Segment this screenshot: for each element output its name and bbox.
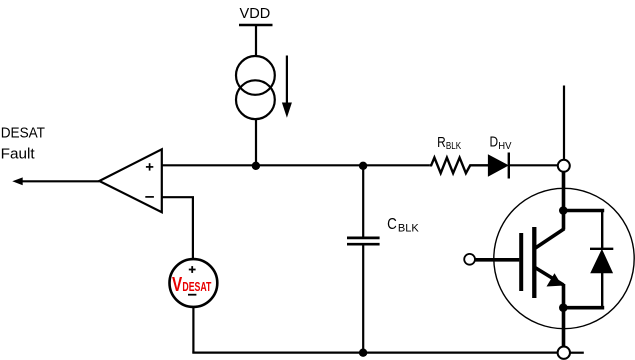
junction C_BLK bottom node [359,349,367,357]
current direction arrow [282,56,292,118]
wire C_BLK bottom lead [362,245,364,352]
diode D_HV label [490,134,512,152]
V_DESAT minus symbol [188,294,196,296]
diode D2 freewheel cathode bar [590,248,613,250]
wire output arrow DESAT Fault [12,177,99,185]
junction collector internal node [559,206,568,215]
IGBT Q1 package circle [494,188,634,328]
diode D_HV triangle [488,155,507,176]
wire freewheel diode top lead [601,211,603,249]
capacitor C_BLK plate bottom [347,243,380,246]
power VDD rail bar [239,24,273,26]
voltage source V_DESAT circle [170,259,218,307]
wire gate lead [475,258,519,262]
op-amp minus input symbol [145,196,154,198]
IGBT emitter diagonal [535,268,564,286]
terminal emitter open node [558,347,570,359]
svg-text:C: C [387,216,397,233]
diode D_HV cathode bar [508,153,510,179]
IGBT body bar [532,227,536,298]
wire minus input to V_DESAT [162,197,193,259]
svg-text:DESAT: DESAT [1,125,45,142]
wire collector to freewheel diode top [563,209,604,213]
op-amp U1 comparator triangle [99,149,162,212]
junction current source node [252,162,260,170]
current source I1 circle bottom [236,80,275,119]
svg-text:V: V [172,273,182,296]
current source I1 circle top [236,56,275,95]
resistor R_BLK zigzag [430,158,489,174]
V_DESAT plus symbol [189,266,196,273]
svg-text:VDD: VDD [240,5,271,22]
diode D2 freewheel triangle [591,250,612,273]
wire emitter rail stub [570,352,584,354]
svg-text:HV: HV [498,141,511,152]
capacitor C_BLK label [387,216,419,235]
svg-text:BLK: BLK [446,141,462,152]
wire VDD to current source [255,25,257,57]
terminal gate open node [464,254,475,265]
terminal collector open node [558,160,570,172]
wire V_DESAT to ground rail [192,307,194,353]
svg-text:D: D [490,134,499,151]
svg-text:Fault: Fault [1,145,36,162]
wire emitter vertical [562,284,566,347]
wire bottom rail [192,352,557,354]
wire collector into IGBT [562,172,566,230]
IGBT emitter arrowhead [547,273,563,286]
svg-text:BLK: BLK [398,222,420,234]
wire main horizontal net DESAT [162,164,430,166]
resistor R_BLK label [437,134,461,152]
wire freewheel diode bottom lead [601,273,603,308]
wire collector top stub [563,86,565,160]
junction emitter internal node [559,303,568,312]
op-amp plus input symbol [146,163,153,170]
svg-text:DESAT: DESAT [182,280,211,294]
wire C_BLK top lead [362,166,364,237]
wire emitter to freewheel diode bottom [563,306,604,310]
IGBT gate bar [519,233,523,291]
svg-text:R: R [437,134,446,151]
junction C_BLK top node [359,162,367,170]
capacitor C_BLK plate top [347,237,380,240]
wire diode to collector node [510,164,558,166]
IGBT collector diagonal [535,229,564,249]
wire current source to node [255,119,257,166]
